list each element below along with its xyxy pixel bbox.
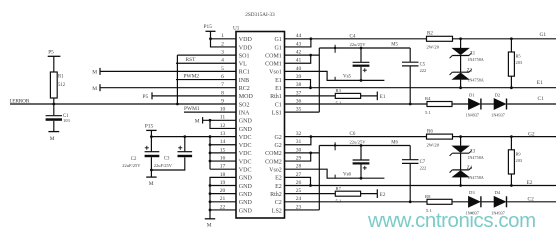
node E1 stub label (380, 95, 386, 100)
svg-text:5.1: 5.1 (336, 101, 342, 106)
junction VDC pin14 (209, 143, 212, 146)
node E2 stub terminal bar (376, 189, 378, 198)
diode D1 symbol (468, 99, 481, 110)
wire Z4 to E2 (460, 177, 462, 185)
svg-text:1N4758A: 1N4758A (467, 155, 484, 160)
junction G2/R9 (510, 135, 513, 138)
junction G1/zener (459, 37, 462, 40)
svg-text:222: 222 (420, 68, 427, 73)
power P5 (MOD) terminal bar (151, 92, 153, 99)
wire M to pin 7 (RC2) (100, 87, 236, 89)
wire pin 43 riser (285, 39, 311, 47)
svg-text:R5: R5 (516, 54, 522, 59)
resistor R1 designator (58, 75, 64, 80)
svg-text:5.1: 5.1 (336, 198, 342, 203)
wire G1 net right of R2 (453, 38, 556, 40)
node E2 stub label (380, 193, 386, 198)
wire LS2 pin23 stub (285, 209, 320, 211)
wire P5 to R1 (53, 56, 55, 72)
zener Z2 value 1N4758A (467, 77, 484, 82)
svg-text:G2: G2 (274, 135, 281, 141)
capacitor C1 plates (46, 116, 62, 121)
svg-text:R1: R1 (58, 75, 64, 80)
svg-text:M: M (92, 70, 97, 76)
capacitor C2 plus mark (145, 146, 149, 150)
watermark www.cntronics.com (367, 210, 536, 232)
wire E2 net (285, 185, 556, 187)
resistor R7 value 5.1 (336, 198, 342, 203)
capacitor C7 designator (420, 160, 426, 165)
junction zener/E2 (459, 184, 462, 187)
wire R8 to D3 (452, 201, 468, 203)
wire P5 to pin 8 (MOD) (152, 95, 236, 97)
resistor R6 value 2W/20 (427, 142, 440, 147)
svg-text:C1: C1 (275, 102, 282, 108)
node E2 label (right) (527, 180, 533, 186)
junction G1/R5 (510, 37, 513, 40)
junction M bus pin11 (209, 119, 212, 122)
wire R9 to E2 (510, 174, 512, 186)
U1 designator U1 (233, 25, 240, 31)
resistor R3 body (335, 93, 360, 98)
junction G1/pin43 riser (310, 37, 313, 40)
wire R4 to D1 (452, 103, 468, 105)
junction P15/pin1 (209, 37, 212, 40)
capacitor C7 value 222 (420, 165, 427, 170)
capacitor C2 top lead (150, 137, 152, 152)
wire VDC bus (209, 137, 211, 170)
svg-text:PWM1: PWM1 (184, 106, 200, 112)
svg-text:R9: R9 (516, 151, 522, 156)
junction rail/C2 (150, 135, 153, 138)
wire pin 41 riser (285, 55, 311, 63)
diode D3 value 1N4937 (466, 210, 480, 215)
svg-text:www.cntronics.com: www.cntronics.com (367, 210, 536, 232)
svg-text:R2: R2 (427, 31, 433, 36)
svg-text:Vso1: Vso1 (269, 70, 282, 76)
resistor R6 body (427, 134, 453, 139)
power P15 (C2/C3) label (145, 124, 154, 130)
svg-text:E1: E1 (537, 80, 543, 86)
svg-text:D4: D4 (495, 190, 501, 195)
node I.ERROR label (10, 98, 30, 104)
power P15 (top) bar symbol (206, 30, 216, 32)
resistor R1 value 512 (58, 83, 66, 88)
diode D1 designator (469, 92, 475, 97)
wire M to pin 5 (RC1) (100, 70, 236, 72)
wire C3 bottom to C2 bottom (151, 157, 184, 170)
U1 right pin numbers (296, 33, 302, 210)
resistor R9 designator (516, 151, 522, 156)
capacitor C4 top lead (360, 48, 362, 62)
node tick on Vs6 wire (334, 175, 336, 179)
capacitor C2 value 22uF/25V (122, 163, 141, 168)
wire E1 pin39 riser (285, 80, 311, 88)
svg-text:E1: E1 (275, 78, 282, 84)
U1 left pin numbers 1-22 (220, 33, 226, 210)
junction VDC pin16 (209, 160, 212, 163)
wire G1 net left of R2 (285, 38, 427, 40)
capacitor C3 value 22uF/25V (154, 163, 173, 168)
svg-text:P15: P15 (204, 24, 213, 30)
capacitor C2 bottom lead (150, 157, 152, 177)
capacitor C4 designator (350, 34, 356, 39)
wire D2 to C1 terminal (507, 103, 556, 105)
ground M (pins 11-12) terminal bar (202, 117, 204, 123)
junction zener/E1 (459, 86, 462, 89)
node tick on Vs5 wire (334, 77, 336, 81)
svg-text:INA: INA (239, 110, 250, 116)
svg-text:1N4937: 1N4937 (466, 210, 480, 215)
capacitor C5 value 222 (420, 68, 427, 73)
wire M bus to pin 12 (210, 120, 236, 128)
svg-text:VL: VL (239, 62, 247, 68)
svg-text:D2: D2 (495, 92, 501, 97)
U1 title 2SD315AI-33 (245, 12, 275, 18)
capacitor C1 designator (63, 114, 69, 119)
wire VDC stub pin17 (210, 168, 236, 170)
capacitor C4 plates (353, 62, 370, 66)
wire GND stub pin18 (210, 177, 236, 185)
svg-text:E2: E2 (275, 176, 282, 182)
svg-text:PWM2: PWM2 (184, 73, 200, 79)
svg-text:M: M (195, 118, 200, 124)
svg-text:Z3: Z3 (470, 149, 476, 154)
svg-text:Rth1: Rth1 (270, 94, 282, 100)
capacitor C1 bottom lead (53, 121, 55, 132)
junction ERROR/SO1 (176, 103, 179, 106)
svg-text:2SD315AI-33: 2SD315AI-33 (245, 12, 275, 18)
wire PWM1 to pin 10 (184, 111, 236, 113)
svg-text:LS2: LS2 (272, 208, 282, 214)
svg-text:1N4758A: 1N4758A (467, 175, 484, 180)
node Vs6 label (343, 172, 352, 177)
capacitor C6 plates (353, 160, 370, 165)
resistor R7 body (335, 191, 360, 196)
zener Z3 designator (470, 149, 476, 154)
wire SO1 pin3 stub (177, 54, 236, 56)
capacitor C6 top lead (360, 146, 362, 160)
junction GND pin21 (209, 200, 212, 203)
capacitor C6 value 22u/25V (350, 139, 367, 144)
svg-text:C4: C4 (350, 34, 356, 39)
resistor R4 designator (425, 96, 431, 101)
diode D1 value 1N4937 (466, 113, 480, 118)
svg-text:203: 203 (516, 60, 523, 65)
ground M (RC1) terminal bar (99, 68, 101, 75)
zener Z1 designator (470, 52, 476, 57)
svg-text:Vs5: Vs5 (343, 75, 352, 80)
wire G1 to Z1 (460, 39, 462, 48)
svg-text:1N4937: 1N4937 (491, 113, 505, 118)
wire GND stub pin21 (210, 201, 236, 203)
junction VDC pin15 (209, 152, 212, 155)
wire COM2 vertical to LS2 (318, 146, 320, 210)
wire M to pin 11 (203, 119, 236, 121)
svg-text:GND: GND (239, 192, 253, 198)
capacitor C5 plates (402, 62, 419, 66)
junction rail/VDC-bus (209, 135, 212, 138)
junction R9/E2 (510, 184, 513, 187)
resistor R8 body (427, 199, 452, 204)
svg-text:LS1: LS1 (272, 110, 282, 116)
svg-text:RST: RST (186, 57, 197, 63)
wire D4 to C2 terminal (507, 201, 556, 203)
node C2 label (right) (528, 196, 535, 202)
capacitor C6 bottom lead (360, 165, 362, 179)
wire E1 net (285, 87, 556, 89)
node PWM1 label (184, 106, 200, 112)
capacitor C5 bottom lead (409, 66, 411, 104)
junction COM2 pins 29/30 (309, 152, 312, 155)
wire pin 29 riser (285, 153, 311, 161)
node tick on COM2 rail (334, 142, 336, 150)
wire P15 rail to pin 13 (VDC) (151, 136, 236, 138)
junction C4/Vs5 (360, 79, 363, 82)
node C1 label (right) (538, 96, 545, 102)
resistor R6 designator (427, 129, 433, 134)
wire Z1 to Z2 (460, 56, 462, 73)
capacitor C6 plus mark (363, 166, 367, 170)
svg-text:1N4937: 1N4937 (466, 113, 480, 118)
wire GND stub pin19 (210, 185, 236, 187)
svg-text:D1: D1 (469, 92, 475, 97)
svg-text:GND: GND (239, 208, 253, 214)
svg-text:G2: G2 (528, 132, 535, 138)
diode D2 designator (495, 92, 501, 97)
resistor R3 value 5.1 (336, 101, 342, 106)
resistor R9 body (508, 150, 514, 174)
svg-text:VDC: VDC (239, 135, 252, 141)
capacitor C3 designator (164, 156, 170, 161)
junction rail/C3 (183, 135, 186, 138)
resistor R8 value 5.1 (426, 208, 432, 213)
wire R3 to E1 stub (361, 95, 378, 97)
zener Z1 value 1N4758A (467, 57, 484, 62)
junction C1/C5 (409, 103, 412, 106)
svg-text:VDC: VDC (239, 143, 252, 149)
wire P15 to pins 1-2 (211, 31, 237, 47)
svg-text:COM1: COM1 (265, 62, 282, 68)
node PWM2 label (184, 73, 200, 79)
diode D2 value 1N4937 (491, 113, 505, 118)
resistor R5 value 203 (516, 60, 523, 65)
capacitor C7 plates (402, 160, 419, 164)
svg-text:SO1: SO1 (239, 53, 250, 59)
resistor R9 value 203 (516, 158, 523, 163)
wire G1 to R5 (510, 39, 512, 52)
svg-text:D3: D3 (469, 190, 475, 195)
svg-text:R7: R7 (336, 186, 342, 191)
capacitor C7 top lead (409, 146, 411, 160)
svg-text:VDC: VDC (239, 151, 252, 157)
capacitor C1 top lead (53, 104, 55, 115)
wire R7 to E2 stub (361, 193, 378, 195)
zener Z2 designator (467, 68, 473, 73)
capacitor C5 designator (420, 63, 426, 68)
capacitor C4 bottom lead (360, 67, 362, 81)
wire GND stub pin22 (210, 209, 236, 211)
node G1 label (540, 32, 547, 38)
wire RST to pin 4 (176, 62, 236, 64)
svg-text:203: 203 (516, 158, 523, 163)
wire ERROR net to pin 9 (SO2) (10, 103, 236, 105)
resistor R7 designator (336, 186, 342, 191)
zener Z4 symbol (450, 167, 472, 177)
junction C6/Vs6 (360, 177, 363, 180)
svg-text:1N4758A: 1N4758A (467, 77, 484, 82)
svg-text:222: 222 (420, 165, 427, 170)
svg-text:GND: GND (239, 127, 253, 133)
diode D4 symbol (494, 196, 507, 207)
wire GND stub pin20 (210, 193, 236, 195)
ground M (pins 11-12) label (195, 118, 200, 124)
svg-text:SO2: SO2 (239, 102, 250, 108)
node tick on COM1 rail (334, 45, 336, 53)
wire SO1-to-ERROR vertical (176, 55, 178, 104)
svg-text:C1: C1 (538, 96, 545, 102)
junction COM1 pins 41/42 (309, 54, 312, 57)
svg-text:Rth2: Rth2 (270, 192, 282, 198)
svg-text:C3: C3 (164, 156, 170, 161)
capacitor C3 top lead (184, 137, 186, 152)
svg-text:5.1: 5.1 (425, 110, 431, 115)
svg-text:E2: E2 (527, 180, 533, 186)
svg-text:P5: P5 (48, 50, 54, 56)
resistor R2 value 2W/20 (427, 45, 440, 50)
wire D1 to D2 (482, 103, 494, 105)
wire Rth2 pin25 to R7 (285, 193, 336, 195)
wire COM1 rail (319, 47, 410, 49)
resistor R5 body (508, 52, 514, 76)
svg-text:COM1: COM1 (265, 53, 282, 59)
power P5 (MOD) label (143, 94, 149, 100)
svg-text:M6: M6 (391, 140, 398, 145)
zener Z1 symbol (450, 48, 472, 58)
svg-text:VDD: VDD (239, 45, 253, 51)
junction G2/pin31 riser (310, 135, 313, 138)
wire E2 pin27 riser (285, 177, 311, 185)
ground M (GND bus) bar (205, 218, 215, 220)
wire COM1 vertical to LS1 (318, 48, 320, 112)
wire Z2 to E1 (460, 79, 462, 87)
svg-text:512: 512 (58, 83, 66, 88)
ground M (RC2) terminal bar (99, 84, 101, 91)
svg-text:C2: C2 (528, 196, 535, 202)
junction GND pin22 (209, 209, 212, 212)
svg-text:Z4: Z4 (467, 166, 473, 171)
wire Vso1 pin40 to Vs5 (285, 71, 385, 80)
svg-text:103: 103 (63, 118, 71, 123)
wire Z3 to Z4 (460, 153, 462, 170)
node E1 label (right) (537, 80, 543, 86)
svg-text:M: M (149, 181, 154, 187)
wire G2 to Z3 (460, 137, 462, 146)
wire VDC stub pin16 (210, 160, 236, 162)
wire GND bus (209, 186, 211, 219)
resistor R3 designator (336, 88, 342, 93)
capacitor C5 top lead (409, 48, 411, 62)
ground M (C1) label (50, 136, 55, 142)
zener Z3 value 1N4758A (467, 155, 484, 160)
junction GND pin20 (209, 192, 212, 195)
svg-text:GND: GND (239, 176, 253, 182)
wire VDC stub pin14 (210, 144, 236, 146)
svg-text:M: M (50, 136, 55, 142)
zener Z4 value 1N4758A (467, 175, 484, 180)
diode D2 symbol (494, 99, 507, 110)
ground M (RC1) label (92, 70, 97, 76)
resistor R2 body (427, 36, 453, 41)
svg-text:Vs6: Vs6 (343, 172, 352, 177)
svg-text:G2: G2 (274, 143, 281, 149)
wire COM2 pin30 stub (285, 152, 320, 154)
svg-text:GND: GND (239, 184, 253, 190)
junction R5/E1 (510, 86, 513, 89)
resistor R8 designator (425, 194, 431, 199)
ground M (C1) bar (48, 131, 59, 133)
capacitor C4 value 22u/25V (350, 42, 367, 47)
svg-text:COM2: COM2 (265, 159, 282, 165)
resistor R2 designator (427, 31, 433, 36)
ground M (RC2) label (92, 86, 97, 92)
wire R1 to ERROR (53, 98, 55, 104)
svg-text:R4: R4 (425, 96, 431, 101)
svg-text:22u/25V: 22u/25V (350, 139, 367, 144)
svg-text:22u/25V: 22u/25V (350, 42, 367, 47)
svg-text:P5: P5 (143, 94, 149, 100)
resistor R4 value 5.1 (425, 110, 431, 115)
junction R1/ERROR/C1 (52, 103, 55, 106)
wire G2 net right of R6 (453, 136, 556, 138)
capacitor C2 plates (145, 152, 160, 158)
svg-text:E2: E2 (275, 184, 282, 190)
svg-text:RC2: RC2 (239, 86, 250, 92)
svg-text:E1: E1 (380, 95, 386, 100)
svg-text:22uF/25V: 22uF/25V (154, 163, 173, 168)
power P15 (C2/C3) bar symbol (146, 129, 156, 131)
svg-text:R8: R8 (425, 194, 431, 199)
wire G2 to R9 (510, 137, 512, 150)
svg-text:R3: R3 (336, 88, 342, 93)
svg-text:VDD: VDD (239, 37, 253, 43)
wire Vso2 pin28 to Vs6 (285, 169, 385, 178)
svg-text:P15: P15 (145, 124, 154, 130)
wire R5 to E1 (510, 76, 512, 88)
svg-text:Z2: Z2 (467, 68, 473, 73)
junction COM2/C6 (360, 144, 363, 147)
capacitor C4 plus mark (363, 68, 367, 72)
capacitor C3 plus mark (178, 146, 182, 150)
ground M (C2) label (149, 181, 154, 187)
wire pin 31 riser (285, 137, 311, 145)
junction E1 pins 38/39 (309, 86, 312, 89)
svg-text:RC1: RC1 (239, 70, 250, 76)
power P5 (R1) bar symbol (48, 55, 61, 57)
svg-text:E1: E1 (275, 86, 282, 92)
resistor R4 body (427, 102, 452, 107)
resistor R1 body (50, 72, 57, 98)
svg-text:C6: C6 (350, 132, 356, 137)
svg-text:Vso2: Vso2 (269, 168, 282, 174)
wire PWM2 to pin 6 (176, 79, 236, 81)
svg-text:M5: M5 (391, 42, 398, 47)
wire P15 drop to rail (150, 130, 152, 136)
svg-text:R6: R6 (427, 129, 433, 134)
node RST label (186, 57, 197, 63)
junction COM1/C4 (360, 47, 363, 50)
capacitor C7 bottom lead (409, 163, 411, 201)
